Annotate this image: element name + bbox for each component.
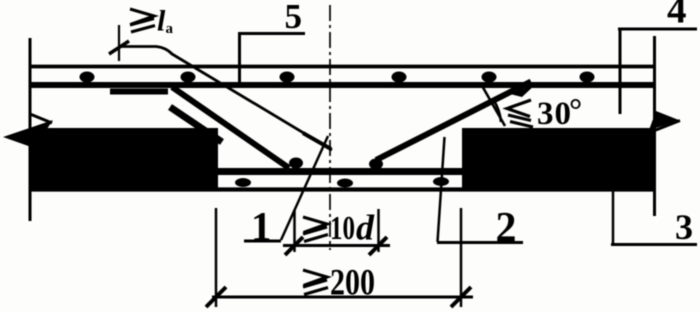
precast plank left (solid)	[30, 128, 218, 191]
precast plank right (solid)	[462, 128, 654, 191]
dimension 200 boundary lines	[215, 208, 218, 307]
bend landing dot left	[289, 158, 303, 169]
break symbol right	[649, 111, 680, 130]
leader label 4	[618, 28, 697, 31]
svg-text:200: 200	[330, 263, 375, 304]
angle annotation ray	[481, 84, 505, 126]
geq glyph (200)	[303, 270, 328, 295]
bent bar left lower band	[170, 107, 222, 142]
top distribution bar dots	[80, 72, 595, 83]
top slab surface line	[29, 65, 657, 69]
leader label 2	[438, 137, 445, 242]
bend landing dot right	[369, 159, 383, 170]
dimension 200 ticks	[206, 287, 226, 307]
dimension 10d boundary lines	[293, 210, 296, 252]
centerline	[329, 5, 331, 250]
svg-text:a: a	[166, 21, 174, 37]
bottom rebar band in joint	[218, 168, 462, 175]
splice bar (thin, with anchorage hook)	[119, 47, 332, 151]
svg-text:30: 30	[537, 96, 571, 132]
dimension 200 line	[212, 296, 473, 299]
svg-text:d: d	[356, 208, 375, 248]
geq glyph (10d)	[303, 217, 328, 242]
leader label 1	[244, 240, 281, 243]
bottom slab line	[29, 187, 657, 191]
left slab edge line	[29, 38, 32, 221]
splice bar end tick	[303, 133, 331, 149]
bottom distribution dots	[235, 177, 449, 188]
top rebar (thick bar)	[30, 82, 654, 88]
leq glyph (30deg)	[507, 100, 533, 127]
svg-text:5: 5	[285, 0, 303, 36]
leader label 5	[238, 32, 305, 35]
svg-text:3: 3	[675, 207, 693, 247]
bent bar left (thick)	[172, 87, 289, 168]
svg-text:10: 10	[330, 210, 355, 247]
geq glyph (la)	[130, 9, 155, 32]
dimension 10d line	[283, 244, 390, 247]
break symbol left	[30, 114, 52, 123]
svg-text:4: 4	[667, 0, 687, 32]
dimension 10d ticks	[285, 237, 303, 255]
svg-text:2: 2	[496, 205, 517, 251]
lap bar segment under top rebar	[110, 89, 168, 95]
leader label 3	[612, 189, 615, 244]
bent bar right (thick)	[376, 82, 531, 161]
angle annotation arc	[493, 99, 501, 122]
anchorage la boundary tick	[118, 25, 120, 61]
svg-text:1: 1	[251, 203, 272, 249]
right slab edge line	[653, 36, 656, 216]
svg-text:°: °	[569, 93, 582, 129]
